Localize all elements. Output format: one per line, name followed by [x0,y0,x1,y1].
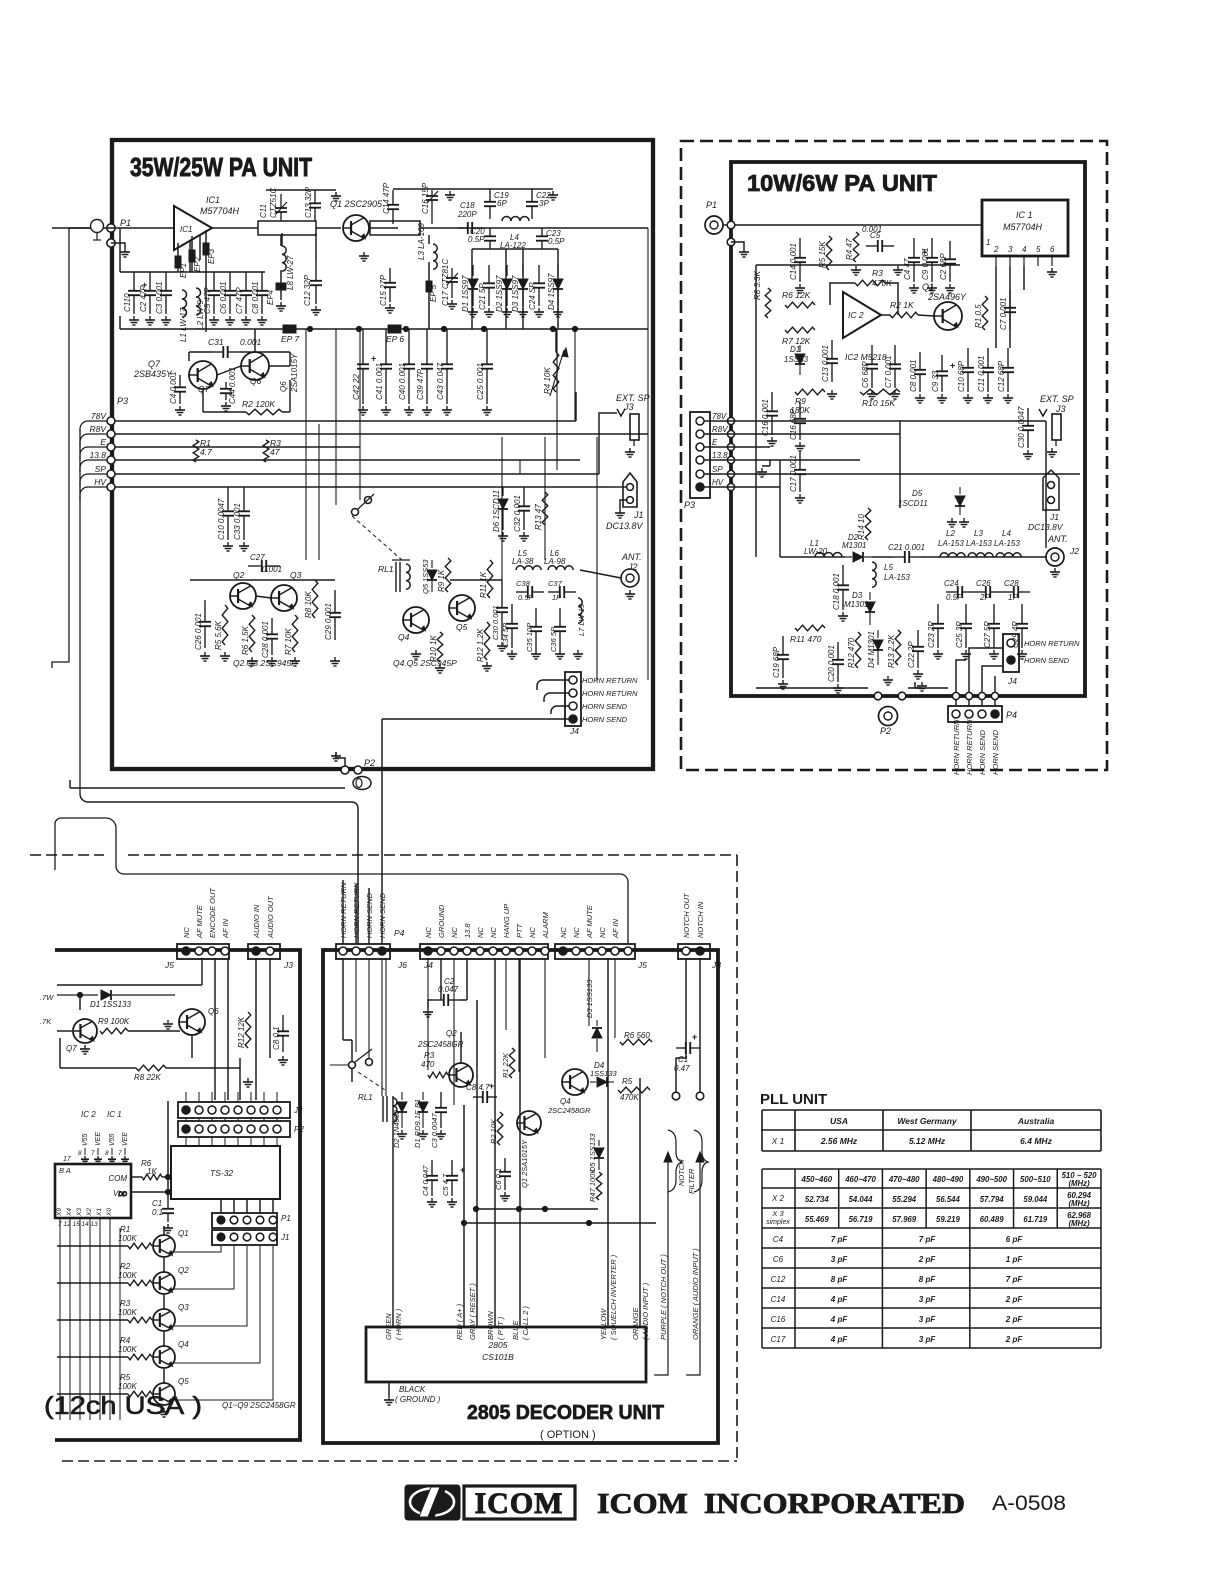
PLL t2 X2b 6 [1068,1199,1090,1208]
label J2 10W [1069,546,1079,556]
label P3 10W [684,500,695,510]
svg-text:2SA496Y: 2SA496Y [927,292,967,302]
label Q2 [233,570,245,580]
svg-text:L3 LA-169: L3 LA-169 [417,223,426,260]
svg-text:R14 10: R14 10 [857,514,866,540]
label P4 HORN SEND 998 [991,729,1000,775]
transistor Q1 (ch) [153,1235,175,1257]
pin 6 IC1 [1050,245,1055,266]
svg-text:4.7: 4.7 [200,447,212,457]
capacitor C18 0.001 (10W) [837,565,849,610]
ground q2q3 252 [247,657,257,666]
svg-text:C22 2P: C22 2P [907,641,916,668]
label C2 v dec [438,985,459,994]
filter TS-32 [171,1146,280,1199]
label dec J4 NC 2 [450,927,459,938]
wire lpf to ant [580,570,621,578]
ground C13 [331,192,341,201]
ground lpf 578 [573,650,583,659]
op-amp IC1 M57704H triangle [174,206,212,250]
label L7 LW-19 [577,603,586,636]
label L1 LW-20 [810,539,819,548]
label Q4 dec [560,1097,571,1106]
ground C25 [482,406,492,415]
label J2 ch [293,1106,303,1115]
PLL t2 X3 4 [980,1215,1005,1224]
svg-text:2 pF: 2 pF [1005,1315,1024,1324]
svg-text:NC: NC [476,927,485,938]
capacitor C2 68P (10W) [944,241,956,282]
svg-text:1 pF: 1 pF [1006,1255,1024,1264]
svg-text:LA-153: LA-153 [966,539,992,548]
wire bus R8V lead [80,434,107,446]
svg-text:C3 0.0047: C3 0.0047 [430,1113,439,1148]
svg-text:L8 LW-27: L8 LW-27 [286,255,295,290]
ground cap bank x214 [209,316,219,325]
inductor L8 LW-27 [282,246,286,271]
wire ch left h2 [57,1030,72,1032]
label C8 0.001 [909,360,918,392]
resistor R2 120K [246,409,282,415]
label R2 10K dec [489,1118,498,1144]
label ANT 10W [1047,534,1068,544]
label C13 0.001 [821,345,830,382]
svg-text:C18 0.001: C18 0.001 [832,573,841,610]
label C5 47P [203,287,212,314]
svg-text:2: 2 [993,245,999,254]
ground C21 [484,308,494,317]
ground at P1 [120,248,130,257]
label bus 78V [91,411,107,421]
svg-text:R9 100K: R9 100K [98,1017,130,1026]
label P4 HORN RETURN 972 [965,719,974,775]
svg-text:R13 2.2K: R13 2.2K [887,634,896,668]
ground P1 (10W) [739,248,749,257]
svg-text:C8 0.1: C8 0.1 [272,1026,281,1050]
ICOM eye logo [405,1485,460,1520]
PLL t2 C12 c [1006,1275,1024,1284]
svg-text:470K: 470K [620,1093,639,1102]
capacitor C26 0.001 [199,600,211,648]
svg-text:L1 LW-17: L1 LW-17 [179,307,188,342]
label C8 4.7 [466,1083,490,1092]
label ch AF MUTE [195,904,204,939]
svg-text:C11: C11 [259,204,268,218]
label L6 LA-98 [550,549,559,558]
svg-text:Q6: Q6 [279,381,288,392]
label C23 0.5P [546,229,561,238]
label ch NC [182,927,191,938]
svg-text:NOTCH IN: NOTCH IN [696,901,705,938]
label R13 2.2K [887,634,896,668]
svg-text:M1301: M1301 [844,600,868,609]
ground cap bank x166 [161,316,171,325]
label C7 0.001b [884,356,893,388]
svg-text:Q1~Q9 2SC2458GR: Q1~Q9 2SC2458GR [222,1401,296,1410]
PLL t2 C4 c [1006,1235,1024,1244]
antenna jack J2 (10W) [1046,548,1064,566]
label R6 560 [624,1031,650,1040]
ground C42 22 [358,406,368,415]
svg-text:J2: J2 [293,1106,303,1115]
label dec J5 AF IN 4 [611,918,620,939]
wire ch collector bus [163,1226,165,1383]
svg-text:IC 1: IC 1 [1016,210,1033,220]
svg-text:C35 10P: C35 10P [525,623,534,652]
label C29 0.001 [324,603,333,640]
resistor R1 22K (dec) [509,1048,515,1078]
svg-text:57.794: 57.794 [980,1195,1005,1204]
svg-text:( GROUND ): ( GROUND ) [395,1395,441,1404]
PLL t2 C16 [771,1315,786,1324]
wire Q6 right [289,380,291,412]
label M57704H value [200,206,240,216]
svg-text:HORN RETURN: HORN RETURN [582,676,638,685]
diode D4 M1301 [873,630,883,665]
ground C30 [1023,450,1033,459]
wire IC1 in [104,227,174,229]
ground cap bank x262 [257,316,267,325]
svg-text:R6 12K: R6 12K [782,290,811,300]
label C24 v [946,593,963,602]
wire hooked bus line [70,780,345,788]
transistor Q2 (ch) [153,1272,175,1294]
svg-text:P1: P1 [120,218,131,228]
svg-text:NC: NC [598,927,607,938]
ground D4 R13 [883,676,893,685]
label R3 [120,1299,131,1308]
svg-text:TS-32: TS-32 [210,1168,233,1178]
svg-text:HORN SEND: HORN SEND [378,892,387,938]
title 2805 DECODER UNIT [467,1402,664,1424]
microstrip line 2 [370,221,420,235]
wire dec color YELLOW 608 [607,958,609,1327]
svg-text:C13 32P: C13 32P [304,186,313,218]
label P1 (10W) [706,200,717,210]
transistor Q6 (ch) [179,1009,205,1035]
ground R12 ch [243,1078,253,1087]
svg-text:Q4: Q4 [398,632,410,642]
svg-text:C24: C24 [944,579,959,588]
ground IC2 caps 920 [915,394,925,403]
wire dec gnd c2 [428,1000,432,1008]
label dec PURPLE ( NOTCH OUT ) [659,1254,668,1340]
PLL t2 X2 [771,1194,785,1203]
label R13 47 [534,504,543,530]
svg-text:3 pF: 3 pF [831,1255,849,1264]
connector P1 (ch) [212,1213,277,1228]
label C30 0.001 [491,605,500,640]
label RL1 [378,564,394,574]
label D2 1SS97 [495,275,504,312]
wire bus vertical [79,429,81,794]
label ch pin nums [58,1221,98,1228]
label HORN SEND 2 [582,715,628,724]
svg-text:6P: 6P [497,199,507,208]
label NOTCH [677,1159,686,1186]
label IC1 (10W) [1016,210,1033,220]
svg-text:470~480: 470~480 [888,1175,920,1184]
svg-text:HORN RETURN: HORN RETURN [582,689,638,698]
label R12 470 [847,637,856,668]
svg-text:IC 2: IC 2 [848,310,864,320]
svg-text:C6 0.001: C6 0.001 [219,282,228,314]
ground C1 ch [163,1224,173,1233]
label D1 RD9.1E [413,1099,422,1148]
svg-text:1K: 1K [147,1167,157,1176]
label C2 68P 10W [939,253,948,280]
ground C25 3P [961,650,971,659]
label D2 v [842,541,866,550]
ground C12 [311,306,321,315]
wire TS32 to P1 [221,1199,273,1213]
inductor L4 LA-153 [996,553,1021,557]
svg-text:HORN RETURN: HORN RETURN [1024,639,1080,648]
PLL t2 C16 b [919,1315,937,1324]
resistor R4 100K (ch) [128,1354,152,1360]
PLL t2 C6 c [1006,1255,1024,1264]
label Q6 ch [208,1007,219,1016]
capacitor C28 1P [1002,586,1030,598]
label C11 0.001 [977,356,986,392]
label dec J4 NC 0 [424,927,433,938]
svg-text:4 pF: 4 pF [830,1315,849,1324]
svg-text:460~470: 460~470 [844,1175,876,1184]
wire IC2 out [881,314,890,316]
svg-text:J3: J3 [1055,404,1066,414]
svg-text:M57704H: M57704H [1003,222,1043,232]
svg-text:R12 470: R12 470 [847,637,856,668]
label P2 [364,758,375,768]
svg-text:M1301: M1301 [842,541,866,550]
svg-text:D3 1SS97: D3 1SS97 [511,275,520,312]
svg-text:Australia: Australia [1017,1116,1055,1126]
svg-text:RED ( A+ ): RED ( A+ ) [455,1303,464,1340]
label ch X9 [56,1208,63,1217]
svg-text:3P: 3P [539,199,549,208]
ground D2 1SS97 [502,308,512,317]
label dec J5 AF MUTE 2 [585,904,594,939]
capacitor C9 0.001 (10W) [926,238,938,282]
svg-text:(MHz): (MHz) [1068,1199,1090,1208]
svg-text:2 pF: 2 pF [1005,1295,1024,1304]
capacitor C36 5P [554,608,566,650]
svg-text:C4: C4 [773,1235,784,1244]
label P1 ch [281,1214,291,1223]
wire P1 stub [111,243,125,248]
ground C5 dec [447,1198,457,1207]
label R5 5.6K [214,620,223,650]
label P2 10W [880,726,891,736]
resistor R3 470K [855,280,885,286]
label ANT [621,552,642,562]
label C9 0.001 10W [921,248,930,280]
svg-text:+: + [489,1081,494,1091]
wire bus 13.8 lead [80,460,107,472]
ground cap bank x246 [241,316,251,325]
wire q2 bus [190,579,335,581]
wire horn vertical a [342,880,344,944]
svg-text:HORN SEND: HORN SEND [991,729,1000,775]
wire Q7 down [202,389,204,412]
pin P2 border a [874,692,906,700]
svg-text:C7 47P: C7 47P [235,287,244,314]
svg-text:R10 15K: R10 15K [862,398,895,408]
label R6 v [147,1167,157,1176]
svg-text:100K: 100K [118,1234,137,1243]
label NOTCH IN [696,901,705,938]
capacitor C6 68P [866,345,878,388]
capacitor C24 5P [533,265,545,306]
svg-text:E: E [100,437,106,447]
resistor R1 4.7 [193,440,199,462]
svg-text:HORN SEND: HORN SEND [582,715,628,724]
resistor R6 1.5K [249,615,255,652]
microstrip line 1 [258,221,316,235]
label C18 220P [460,201,475,210]
wire diode bus [472,248,558,250]
label AUDIO IN [252,904,261,939]
switch (dec) [330,1049,373,1069]
svg-text:C30 0.001: C30 0.001 [491,605,500,640]
PLL t2 hdr2 6 [1068,1179,1090,1188]
svg-text:AUDIO IN: AUDIO IN [252,904,261,939]
wire ch drop4 [269,958,271,1058]
wire 10W inner v3 [899,421,901,508]
capacitor C35 10P [530,608,542,650]
text A-0508 [992,1492,1066,1515]
capacitor C2 47P [144,272,156,314]
svg-text:X 2: X 2 [771,1194,785,1203]
svg-text:NC: NC [489,927,498,938]
label C15 0.001 [761,399,770,436]
label dec J4 GROUND 1 [437,904,446,938]
label R3 470 dec [424,1051,435,1060]
wire dec J4 J5 drops [428,958,615,1105]
pin ch bottom 4 [99,1218,101,1228]
PLL t2 C12 [771,1275,786,1284]
svg-text:D1 1SS133: D1 1SS133 [90,1000,131,1009]
label HORN RETURN 1 [582,676,638,685]
channel unit enclosure box [55,950,300,1440]
svg-text:X9: X9 [56,1208,63,1217]
svg-text:C16 68P: C16 68P [789,408,798,440]
svg-text:R1 22K: R1 22K [501,1052,510,1078]
svg-text:AF IN: AF IN [221,918,230,939]
pin ch bottom 2 [79,1218,81,1228]
PLL t1 2.56 MHz [820,1136,858,1146]
wire diode loop sides3 [522,249,524,329]
ground VEE 125 [121,1156,129,1163]
label R5 v [620,1093,639,1102]
label R9 100K [98,1017,130,1026]
capacitor C27 5P [988,604,1000,648]
label ch V55 112 [109,1133,116,1146]
PLL t2 C17 [771,1335,786,1344]
IC 2805 CS101B [366,1327,646,1382]
label D1 1SS133 [90,1000,131,1009]
svg-text:Q1 2SA1015Y: Q1 2SA1015Y [520,1139,529,1188]
label J3 dec [711,960,721,970]
label R8 10K [304,591,313,618]
wire ch drop2 [227,958,229,1100]
pin ch bottom 1 [69,1218,71,1228]
ground C10 [223,542,233,551]
label dec GREEN b 393 [394,1308,403,1340]
resistor R5 470K [618,1087,650,1093]
label C1 0.47 dec [678,1055,688,1064]
label R1 v [118,1234,137,1243]
wire P4 pin 956 [955,700,957,706]
svg-text:7: 7 [91,1150,95,1157]
pin ch bottom 3 [89,1218,91,1228]
wire top bus [393,188,553,190]
svg-text:M57704H: M57704H [200,206,240,216]
svg-text:C41 0.001: C41 0.001 [375,363,384,400]
label C6 0.001 [219,282,228,314]
label dec GREEN 393 [384,1313,393,1340]
label C27 v [262,565,282,574]
svg-text:A-0508: A-0508 [992,1492,1066,1515]
svg-text:D2 1SS97: D2 1SS97 [495,275,504,312]
svg-text:C11 0.001: C11 0.001 [977,356,986,392]
label ch X0 [106,1208,113,1217]
PLL t2 C17 b [919,1335,937,1344]
label D5 1SCD11 a [912,489,923,498]
ground cap bank x134 [129,316,139,325]
label C19 6P [494,191,509,200]
wire ch drop1 [214,958,216,1100]
svg-text:C10 68P: C10 68P [957,360,966,392]
wire P4 pin 982 [981,700,983,706]
wire ch h3 [60,1038,240,1068]
wire IC1 pins down2 [199,235,201,260]
capacitor C16 15P trimmer [426,190,438,224]
relay RL1 [392,560,410,592]
label dec RED ( A+ ) 464 [455,1303,464,1340]
svg-text:Q2.Q3 2SC945P: Q2.Q3 2SC945P [233,658,297,668]
PLL t2 hdr 2 [888,1175,920,1184]
wire dec bus h1 [476,1208,598,1210]
svg-text:C14: C14 [771,1295,786,1304]
svg-text:C16: C16 [771,1315,786,1324]
label bus10 HV [712,478,724,487]
label Q1-Q9 type [222,1401,296,1410]
label J3 ch [283,960,293,970]
wire P4 pin 995 [994,700,996,706]
inductor L2 LA-153 [940,553,965,557]
svg-text:P4: P4 [1006,710,1017,720]
label Q2 2SC2458GR [446,1029,457,1038]
label dec J4 PTT 7 [515,922,524,938]
svg-text:R2 1K: R2 1K [890,300,914,310]
svg-text:5.12 MHz: 5.12 MHz [909,1136,946,1146]
svg-text:P2: P2 [364,758,375,768]
svg-text:C14 47P: C14 47P [382,182,391,214]
svg-text:D4 1SS97: D4 1SS97 [547,273,556,310]
resistor R4 47 [853,232,859,262]
PLL t2 X3b 6 [1068,1219,1090,1228]
label P4 HORN RETURN 959 [952,719,961,775]
wire ch top h1 [57,984,202,986]
label 2805 [488,1340,508,1350]
resistor R8 22K [136,1065,166,1071]
capacitor C4 0.047 (dec) [426,1160,438,1196]
label R14 10 [857,514,866,540]
label D3 1SS97 [511,275,520,312]
wire horn vertical c [368,888,370,944]
resistor R47 100K [596,1172,602,1200]
